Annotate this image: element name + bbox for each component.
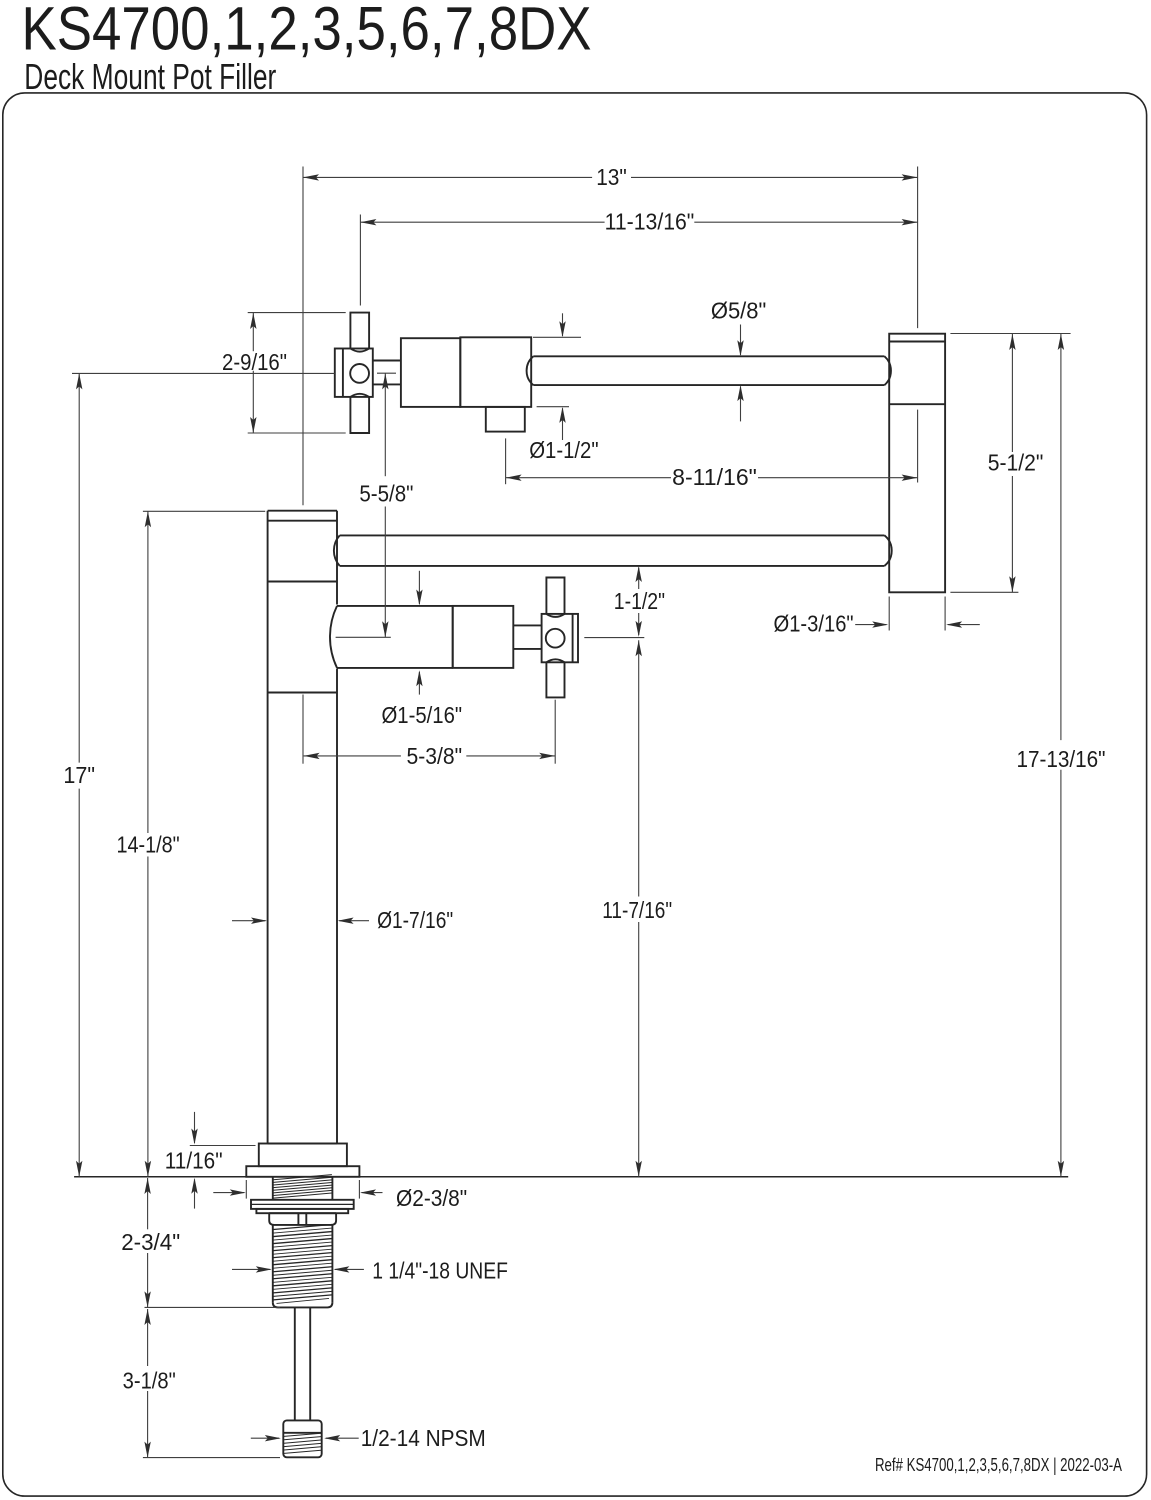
svg-text:Ø1-7/16": Ø1-7/16" bbox=[377, 907, 453, 933]
right swing post top ring line bbox=[889, 341, 945, 343]
upper valve stem bottom line bbox=[373, 383, 401, 385]
dim 1-1/2" swing arm label bbox=[614, 588, 665, 614]
svg-text:Ø2-3/8": Ø2-3/8" bbox=[396, 1185, 467, 1211]
upper valve handle top bar bbox=[350, 313, 369, 349]
svg-text:5-1/2": 5-1/2" bbox=[988, 450, 1044, 476]
dim 11-13/16" line bbox=[360, 219, 917, 225]
deck counter line bbox=[74, 1176, 1068, 1178]
svg-text:KS4700,1,2,3,5,6,7,8DX: KS4700,1,2,3,5,6,7,8DX bbox=[22, 0, 592, 63]
svg-text:5-3/8": 5-3/8" bbox=[407, 743, 463, 769]
upper spout pipe right end arc bbox=[885, 356, 891, 385]
lower valve hub screw circle bbox=[546, 629, 565, 648]
svg-text:2-3/4": 2-3/4" bbox=[121, 1229, 180, 1255]
svg-text:3-1/8": 3-1/8" bbox=[123, 1367, 176, 1393]
dim Ø2-3/8" extension lines bbox=[246, 1180, 359, 1199]
dim 8-11/16" label bbox=[672, 464, 757, 490]
base collar bbox=[259, 1144, 347, 1167]
lower valve body left cap arc bbox=[330, 606, 337, 668]
dim Ø2-3/8" right arrow bbox=[360, 1189, 383, 1195]
dim 1/2-14 NPSM left arrow bbox=[251, 1435, 281, 1441]
svg-text:8-11/16": 8-11/16" bbox=[672, 464, 757, 490]
NPSM end connector bbox=[283, 1420, 321, 1457]
dim 5-3/8" label bbox=[407, 743, 463, 769]
upper valve body block bbox=[401, 338, 460, 407]
dim 11-13/16" left extension line bbox=[359, 215, 361, 306]
svg-text:11/16": 11/16" bbox=[165, 1147, 223, 1173]
dim 1/2-14 NPSM label bbox=[361, 1425, 486, 1451]
dim 3-1/8" bottom extension line bbox=[143, 1457, 280, 1459]
svg-text:14-1/8": 14-1/8" bbox=[117, 831, 180, 857]
dim 8-11/16" right extension line bbox=[917, 410, 919, 483]
supply tube bbox=[295, 1307, 310, 1420]
dim Ø1-5/16" lower arrow bbox=[416, 670, 422, 694]
dim 5-3/8" right extension line bbox=[554, 700, 556, 764]
svg-text:11-7/16": 11-7/16" bbox=[602, 897, 672, 923]
svg-text:17-13/16": 17-13/16" bbox=[1016, 746, 1105, 772]
dim 11/16" extension line bbox=[190, 1145, 256, 1147]
dim Ø1-1/2" top extension line bbox=[533, 336, 581, 338]
dim Ø1-7/16" left arrow bbox=[232, 918, 267, 924]
svg-text:Ø1-3/16": Ø1-3/16" bbox=[774, 611, 854, 637]
upper valve handle top neck arc bbox=[350, 349, 369, 352]
upper valve hub screw circle bbox=[350, 364, 369, 383]
svg-text:1/2-14 NPSM: 1/2-14 NPSM bbox=[361, 1425, 486, 1451]
dim Ø2-3/8" left arrow bbox=[213, 1189, 246, 1195]
dim 13" label bbox=[596, 164, 627, 190]
right swing post mid joint line bbox=[889, 403, 945, 405]
valve centerline tick right bbox=[584, 637, 644, 639]
dim Ø1-3/16" label bbox=[774, 611, 854, 637]
dim 8-11/16" line bbox=[506, 475, 918, 481]
locknut facet lines bbox=[298, 1213, 306, 1225]
washer plate bbox=[251, 1200, 354, 1209]
deck flange bbox=[246, 1166, 359, 1177]
dim Ø1-7/16" label bbox=[377, 907, 453, 933]
dim 11-7/16" label bbox=[602, 897, 672, 923]
dim 2-3/4" line bbox=[144, 1178, 150, 1307]
upper valve hub inner line bbox=[342, 349, 344, 397]
title text KS4700 series bbox=[22, 0, 592, 63]
dim 17" extension line bbox=[72, 372, 335, 374]
dim Ø1-3/16" extension lines bbox=[889, 597, 945, 631]
riser column lower joint line bbox=[268, 692, 337, 694]
upper spout pipe top line bbox=[533, 355, 884, 357]
svg-text:17": 17" bbox=[63, 762, 95, 788]
ref footer text bbox=[875, 1454, 1122, 1475]
dim Ø1-3/16" left arrow bbox=[855, 621, 888, 627]
dim 5-3/8" line bbox=[304, 753, 556, 759]
riser column bbox=[268, 511, 337, 1144]
dim 5-1/2" top extension line bbox=[950, 333, 1070, 335]
dim 8-11/16" left extension line bbox=[505, 438, 507, 484]
riser column cap joint line bbox=[268, 581, 337, 583]
lower valve handle bottom bar bbox=[546, 662, 564, 697]
lower valve handle bottom neck arc bbox=[546, 659, 564, 662]
svg-text:Ø1-1/2": Ø1-1/2" bbox=[529, 437, 598, 463]
dim 14-1/8" line bbox=[145, 511, 151, 1177]
lower swing arm pipe bottom line bbox=[340, 565, 885, 567]
dim 3-1/8" label bbox=[123, 1367, 176, 1393]
dim 2-9/16" label bbox=[222, 349, 287, 375]
upper valve stem top line bbox=[373, 360, 401, 362]
dim 11/16" label bbox=[165, 1147, 223, 1173]
dim Ø1-1/2" bottom extension line bbox=[537, 406, 569, 408]
dim 5-5/8" upper tick bbox=[377, 372, 396, 374]
main threaded shank UNEF bbox=[273, 1225, 333, 1308]
dim 1 1/4"-18 UNEF right arrow bbox=[333, 1266, 364, 1272]
lower valve stem bottom line bbox=[513, 648, 541, 650]
dim Ø5/8" label bbox=[711, 298, 767, 324]
lower valve stem top line bbox=[513, 624, 541, 626]
upper elbow body block bbox=[460, 337, 531, 407]
svg-text:Ø1-5/16": Ø1-5/16" bbox=[382, 702, 463, 728]
dim 1 1/4"-18 UNEF left arrow bbox=[232, 1266, 272, 1272]
dim 13" line bbox=[303, 174, 918, 180]
dim Ø5/8" upper arrow bbox=[737, 325, 743, 357]
dim 5-5/8" label bbox=[359, 480, 413, 506]
upper spout pipe bottom line bbox=[533, 384, 884, 386]
dim 5-1/2" line bbox=[1009, 334, 1015, 592]
dim 2-9/16" line bbox=[250, 313, 256, 433]
lower valve handle top bar bbox=[546, 578, 564, 614]
lower valve body second block bbox=[453, 606, 514, 668]
svg-text:13": 13" bbox=[596, 164, 627, 190]
locknut bbox=[269, 1213, 336, 1225]
dim 2-3/4" label bbox=[121, 1229, 180, 1255]
washer plate mid line bbox=[251, 1203, 354, 1205]
dim 11-7/16" line lower bbox=[636, 922, 642, 1177]
svg-text:2-9/16": 2-9/16" bbox=[222, 349, 287, 375]
svg-text:Ø5/8": Ø5/8" bbox=[711, 298, 767, 324]
subtitle Deck Mount Pot Filler bbox=[24, 56, 276, 97]
dim 1-1/2" swing arm line bbox=[636, 566, 642, 589]
dim 11-13/16" label bbox=[605, 209, 695, 235]
dim Ø5/8" lower arrow bbox=[737, 385, 743, 421]
upper spout pipe left end arc bbox=[527, 356, 534, 385]
dim 17" line bbox=[76, 373, 82, 1176]
dim 17" label bbox=[63, 762, 95, 788]
lower valve hub inner line bbox=[572, 614, 574, 662]
svg-text:1 1/4"-18 UNEF: 1 1/4"-18 UNEF bbox=[372, 1257, 508, 1283]
dim Ø1-7/16" right arrow bbox=[338, 918, 369, 924]
dim 11/16" lower arrow bbox=[191, 1178, 197, 1209]
dim 2-3/4" bottom extension line bbox=[145, 1306, 281, 1308]
lower valve hub bbox=[542, 614, 578, 662]
dim Ø1-1/2" top arrow bbox=[559, 313, 565, 337]
lower swing arm left end arc bbox=[334, 535, 340, 566]
dim 11-7/16" line upper bbox=[636, 640, 642, 896]
dim Ø1-5/16" upper arrow bbox=[416, 571, 422, 606]
upper valve handle bottom neck arc bbox=[350, 394, 369, 397]
lower swing arm right end arc bbox=[885, 535, 892, 566]
svg-text:1-1/2": 1-1/2" bbox=[614, 588, 665, 614]
svg-text:Deck Mount Pot Filler: Deck Mount Pot Filler bbox=[24, 56, 276, 97]
threaded shank through deck bbox=[273, 1175, 333, 1200]
dim 2-9/16" top extension line bbox=[248, 312, 346, 314]
svg-text:5-5/8": 5-5/8" bbox=[359, 480, 413, 506]
dim Ø1-3/16" right arrow bbox=[946, 621, 980, 627]
dim 5-3/8" left extension line bbox=[302, 695, 304, 764]
dim 3-1/8" line bbox=[144, 1309, 150, 1458]
upper valve handle bottom bar bbox=[350, 397, 369, 433]
dim 17-13/16" line bbox=[1058, 334, 1064, 1177]
dim 5-5/8" lower tick bbox=[336, 636, 391, 638]
dim 1-1/2" lower arrow bbox=[636, 613, 642, 637]
dim Ø2-3/8" label bbox=[396, 1185, 467, 1211]
dim 5-5/8" line bbox=[382, 373, 388, 637]
right swing post block bbox=[889, 334, 945, 593]
riser column cap ring line bbox=[268, 520, 337, 522]
lower swing arm pipe top line bbox=[340, 534, 885, 536]
washer lower plate bbox=[256, 1209, 348, 1213]
dim 14-1/8" label bbox=[117, 831, 180, 857]
dim 5-1/2" label bbox=[988, 450, 1044, 476]
dim 1 1/4"-18 UNEF label bbox=[372, 1257, 508, 1283]
upper valve hub bbox=[335, 349, 373, 397]
dim 5-1/2" bottom extension line bbox=[950, 591, 1018, 593]
lower valve handle top neck arc bbox=[546, 614, 564, 617]
svg-text:11-13/16": 11-13/16" bbox=[605, 209, 695, 235]
dim 1/2-14 NPSM right arrow bbox=[324, 1435, 359, 1441]
dim 11/16" upper arrow bbox=[191, 1112, 197, 1145]
lower valve body outline bbox=[337, 606, 453, 668]
dim Ø1-1/2" label bbox=[529, 437, 598, 463]
dim 13" left extension line bbox=[302, 167, 304, 506]
dim Ø1-1/2" bottom arrow bbox=[559, 407, 565, 440]
svg-text:Ref# KS4700,1,2,3,5,6,7,8DX |: Ref# KS4700,1,2,3,5,6,7,8DX | 2022-03-A bbox=[875, 1454, 1122, 1475]
dim 14-1/8" extension line bbox=[143, 510, 265, 512]
dim 2-9/16" bottom extension line bbox=[248, 432, 346, 434]
spout outlet nozzle bbox=[486, 407, 525, 432]
dim 13"/11-13/16" right extension line bbox=[917, 167, 919, 329]
dim Ø1-5/16" label bbox=[382, 702, 463, 728]
dim 17-13/16" label bbox=[1016, 746, 1105, 772]
